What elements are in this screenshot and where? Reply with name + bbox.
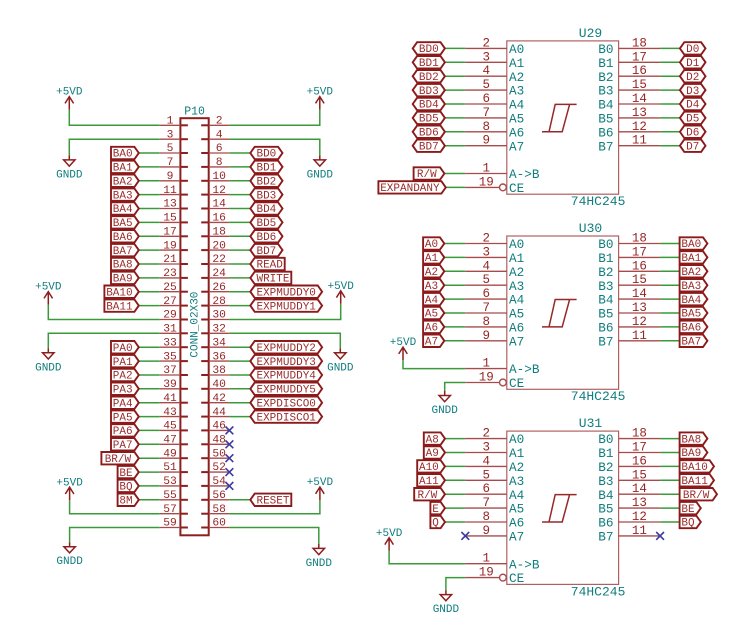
- svg-text:A4: A4: [509, 293, 524, 308]
- no-connect pin 50: [226, 454, 234, 462]
- wire pin 47 to label PA7: [139, 443, 160, 445]
- svg-text:19: 19: [479, 175, 494, 189]
- wire pin 55 to label 8M: [139, 499, 160, 501]
- net label BA7 (at U30): [680, 335, 708, 349]
- svg-text:5: 5: [482, 78, 490, 92]
- wire pin 39 to label PA3: [139, 388, 160, 390]
- P10 pin 29: [160, 310, 188, 322]
- svg-text:58: 58: [212, 504, 226, 516]
- net label 8M: [118, 494, 139, 508]
- P10 pin 53: [160, 476, 188, 488]
- svg-text:BA11: BA11: [106, 301, 133, 313]
- U29 pin 2 A0: [465, 36, 524, 57]
- wire pin 31 to GNDD: [48, 333, 159, 348]
- net label BA1 (at U30): [680, 251, 708, 265]
- wire pin 24 to label WRITE: [229, 277, 250, 279]
- +5VD power symbol (mid right): [327, 281, 354, 304]
- no-connect pin 52: [226, 468, 234, 476]
- U29 pin 14 B4: [598, 92, 660, 113]
- svg-text:49: 49: [163, 448, 177, 460]
- P10 pin 6: [201, 143, 229, 155]
- P10 pin 20: [201, 240, 229, 252]
- wire A3 to U30 A3: [444, 284, 465, 286]
- svg-text:PA0: PA0: [113, 343, 133, 355]
- net label BA11: [104, 299, 138, 313]
- svg-text:D1: D1: [686, 58, 700, 70]
- net label A9 (at U31): [424, 446, 445, 460]
- svg-text:U30: U30: [579, 221, 602, 236]
- svg-text:BA9: BA9: [113, 274, 133, 286]
- svg-text:12: 12: [632, 315, 647, 329]
- net label D0: [680, 42, 706, 56]
- svg-text:D0: D0: [686, 44, 699, 56]
- svg-text:+5VD: +5VD: [307, 87, 334, 99]
- P10 pin 55: [160, 490, 188, 502]
- svg-text:9: 9: [167, 171, 174, 183]
- U29 pin 1 A->B: [465, 162, 540, 183]
- svg-text:15: 15: [632, 78, 647, 92]
- svg-text:BA0: BA0: [113, 149, 133, 161]
- svg-text:1: 1: [482, 357, 490, 371]
- svg-text:18: 18: [632, 427, 647, 441]
- svg-text:BD1: BD1: [419, 58, 439, 70]
- svg-text:BA5: BA5: [113, 218, 133, 230]
- U30 pin 5 A3: [465, 273, 524, 294]
- wire U29 B1 to D1: [660, 61, 680, 63]
- svg-text:D7: D7: [686, 141, 699, 153]
- wire R/W to U31 A4: [445, 493, 465, 495]
- svg-text:8: 8: [482, 510, 490, 524]
- net label BE (at U31): [680, 502, 701, 516]
- svg-text:+5VD: +5VD: [390, 337, 417, 349]
- svg-text:17: 17: [632, 50, 647, 64]
- wire BD6 to U29 A6: [445, 131, 465, 133]
- wire pin 6 to label BD0: [229, 152, 250, 154]
- +5VD power symbol (top left): [56, 87, 83, 110]
- P10 pin 4: [201, 129, 229, 141]
- net label PA4: [111, 397, 139, 411]
- svg-text:33: 33: [163, 337, 177, 349]
- P10 pin 36: [201, 351, 229, 363]
- wire pin 26 to label EXPMUDDY0: [229, 291, 250, 293]
- wire pin 32 to GNDD: [229, 333, 340, 348]
- svg-text:11: 11: [632, 329, 647, 343]
- svg-text:D3: D3: [686, 86, 699, 98]
- net label A8 (at U31): [424, 432, 445, 446]
- wire A5 to U30 A5: [444, 312, 465, 314]
- svg-text:55: 55: [163, 490, 177, 502]
- svg-text:BQ: BQ: [681, 518, 695, 530]
- U29 pin 5 A3: [465, 78, 524, 99]
- net label D1: [680, 56, 706, 70]
- svg-text:4: 4: [482, 64, 490, 78]
- wire A4 to U30 A4: [444, 298, 465, 300]
- svg-text:D5: D5: [686, 114, 699, 126]
- svg-text:EXPDISCO1: EXPDISCO1: [256, 412, 316, 424]
- svg-text:4: 4: [482, 259, 490, 273]
- U31 pin 2 A0: [465, 427, 524, 448]
- U30 pin 3 A1: [465, 245, 524, 266]
- svg-text:19: 19: [479, 566, 494, 580]
- net label PA5: [111, 410, 139, 424]
- svg-text:74HC245: 74HC245: [571, 194, 626, 209]
- svg-text:12: 12: [632, 510, 647, 524]
- net label PA7: [111, 438, 139, 452]
- svg-text:A0: A0: [509, 237, 524, 252]
- net label A7: [423, 335, 444, 349]
- wire U29 B7 to D7: [660, 145, 680, 147]
- no-connect pin 54: [226, 482, 234, 490]
- +5VD power symbol (U30): [390, 337, 417, 360]
- wire A2 to U30 A2: [444, 270, 465, 272]
- U30 pin 6 A4: [465, 287, 524, 308]
- svg-text:9: 9: [482, 524, 490, 538]
- wire U31 B5 to BE: [660, 507, 680, 509]
- svg-text:GNDD: GNDD: [307, 169, 334, 181]
- svg-text:32: 32: [212, 324, 226, 336]
- svg-text:17: 17: [163, 227, 177, 239]
- U31 pin 3 A1: [465, 441, 524, 462]
- svg-text:CONN_02X30: CONN_02X30: [190, 292, 202, 358]
- svg-text:7: 7: [482, 106, 490, 120]
- P10 pin 7: [160, 157, 188, 169]
- ground GNDD (U31): [433, 590, 460, 616]
- svg-text:B7: B7: [598, 334, 613, 349]
- svg-text:+5VD: +5VD: [35, 282, 62, 294]
- wire pin 36 to label EXPMUDDY3: [229, 360, 250, 362]
- svg-text:10: 10: [212, 171, 226, 183]
- wire U30 B3 to BA3: [660, 284, 680, 286]
- U31 pin 6 A4: [465, 482, 524, 503]
- svg-text:12: 12: [632, 120, 647, 134]
- svg-text:D4: D4: [686, 100, 700, 112]
- U31 pin 15 B3: [598, 468, 660, 489]
- net label BA2 (at U30): [680, 265, 708, 279]
- svg-text:BA7: BA7: [113, 246, 133, 258]
- net label PA1: [111, 355, 139, 369]
- svg-text:3: 3: [167, 129, 174, 141]
- wire pin 56 to label RESET: [229, 499, 250, 501]
- net label BD2: [250, 175, 282, 189]
- ground GNDD (bottom right): [306, 544, 333, 570]
- net label EXPMUDDY2: [250, 341, 322, 355]
- net label BD3 (at U29): [413, 84, 445, 98]
- net label BA6: [111, 230, 139, 244]
- svg-text:44: 44: [212, 407, 226, 419]
- svg-text:13: 13: [632, 301, 647, 315]
- svg-text:RESET: RESET: [256, 496, 289, 508]
- wire U31 B0 to BA8: [660, 438, 680, 440]
- net label BA4 (at U30): [680, 293, 708, 307]
- svg-text:A3: A3: [509, 474, 524, 489]
- P10 pin 23: [160, 268, 188, 280]
- P10 pin 41: [160, 393, 188, 405]
- P10 pin 3: [160, 129, 188, 141]
- P10 pin 10: [201, 171, 229, 183]
- wire A0 to U30 A0: [444, 243, 465, 245]
- svg-text:54: 54: [212, 476, 226, 488]
- wire pin 23 to label BA9: [139, 277, 160, 279]
- svg-text:11: 11: [163, 185, 177, 197]
- svg-text:A2: A2: [425, 267, 438, 279]
- svg-text:7: 7: [482, 496, 490, 510]
- svg-text:A->B: A->B: [509, 557, 540, 572]
- U31 pin 16 B2: [598, 454, 660, 475]
- svg-text:+5VD: +5VD: [327, 281, 354, 293]
- ground GNDD (U30): [431, 391, 458, 417]
- svg-text:BA10: BA10: [106, 287, 132, 299]
- net label BD6 (at U29): [413, 126, 445, 140]
- net label EXPMUDDY4: [250, 369, 322, 383]
- svg-text:PA7: PA7: [113, 440, 133, 452]
- net label BA8 (at U31): [680, 432, 708, 446]
- svg-text:+5VD: +5VD: [56, 477, 83, 489]
- net label EXPDISCO1: [250, 410, 322, 424]
- net label PA6: [111, 424, 139, 438]
- svg-text:EXPMUDDY0: EXPMUDDY0: [256, 287, 315, 299]
- svg-text:40: 40: [212, 379, 226, 391]
- net label D3: [680, 84, 706, 98]
- svg-text:A3: A3: [509, 279, 524, 294]
- svg-text:B6: B6: [598, 516, 613, 531]
- P10 pin 58: [201, 504, 229, 516]
- svg-text:GNDD: GNDD: [327, 362, 354, 374]
- net label R/W (at U31): [414, 488, 445, 502]
- svg-text:BR/W: BR/W: [105, 454, 132, 466]
- wire E to U31 A5: [445, 507, 465, 509]
- svg-text:D6: D6: [686, 128, 699, 140]
- P10 pin 31: [160, 324, 188, 336]
- wire EXPANDANY to U29 pin 19: [446, 186, 466, 188]
- net label BD1: [250, 161, 282, 175]
- P10 pin 49: [160, 448, 188, 460]
- net label BD5: [250, 216, 282, 230]
- net label D6: [680, 126, 706, 140]
- svg-text:5: 5: [482, 468, 490, 482]
- svg-text:EXPMUDDY5: EXPMUDDY5: [256, 385, 315, 397]
- svg-text:B7: B7: [598, 139, 613, 154]
- svg-text:BD0: BD0: [256, 149, 276, 161]
- wire pin 15 to label BA5: [139, 221, 160, 223]
- wire pin 30 to +5VD: [229, 304, 340, 320]
- svg-text:BA6: BA6: [681, 323, 701, 335]
- svg-text:48: 48: [212, 435, 226, 447]
- svg-text:BA0: BA0: [681, 239, 701, 251]
- net label D4: [680, 98, 706, 112]
- P10 pin 19: [160, 240, 188, 252]
- svg-text:BD4: BD4: [419, 100, 439, 112]
- P10 pin 9: [160, 171, 188, 183]
- svg-text:R/W: R/W: [417, 169, 437, 181]
- wire U31 B4 to BR/W: [660, 493, 680, 495]
- svg-text:23: 23: [163, 268, 177, 280]
- svg-text:74HC245: 74HC245: [571, 584, 626, 599]
- net label BD7 (at U29): [413, 140, 445, 154]
- net label READ: [250, 258, 284, 272]
- U31 pin 17 B1: [598, 441, 660, 462]
- net label BD3: [250, 188, 282, 202]
- svg-text:BA1: BA1: [681, 253, 701, 265]
- wire U30 B4 to BA4: [660, 298, 680, 300]
- svg-text:19: 19: [163, 240, 177, 252]
- svg-text:BA2: BA2: [681, 267, 701, 279]
- wire pin 45 to label PA6: [139, 429, 160, 431]
- net label BD0 (at U29): [413, 42, 445, 56]
- P10 pin 12: [201, 185, 229, 197]
- net label WRITE: [250, 272, 291, 286]
- U29 pin 11 B7: [598, 134, 660, 155]
- svg-text:A->B: A->B: [509, 362, 540, 377]
- P10 pin 28: [201, 296, 229, 308]
- wire pin 13 to label BA4: [139, 208, 160, 210]
- svg-text:BD5: BD5: [419, 114, 439, 126]
- svg-text:47: 47: [163, 435, 177, 447]
- +5VD power symbol (top right): [307, 87, 334, 110]
- ground GNDD (top left): [56, 155, 83, 181]
- svg-text:CE: CE: [509, 376, 524, 391]
- U30 pin 15 B3: [598, 273, 660, 294]
- net label PA2: [111, 369, 139, 383]
- U30 pin 11 B7: [598, 329, 660, 350]
- net label BA10: [104, 286, 138, 300]
- svg-text:BD2: BD2: [256, 177, 276, 189]
- wire pin 41 to label PA4: [139, 402, 160, 404]
- wire pin 25 to label BA10: [139, 291, 160, 293]
- wire A7 to U30 A7: [444, 340, 465, 342]
- wire A1 to U30 A1: [444, 256, 465, 258]
- net label A11 (at U31): [417, 474, 445, 488]
- P10 pin 34: [201, 337, 229, 349]
- svg-text:E: E: [432, 504, 439, 516]
- svg-text:13: 13: [632, 496, 647, 510]
- P10 pin 47: [160, 435, 188, 447]
- svg-text:8: 8: [216, 157, 223, 169]
- svg-text:B2: B2: [598, 70, 613, 85]
- U29 pin 6 A4: [465, 92, 524, 113]
- svg-text:B1: B1: [598, 251, 613, 266]
- svg-text:BA8: BA8: [681, 434, 701, 446]
- svg-text:CE: CE: [509, 181, 524, 196]
- svg-text:20: 20: [212, 240, 226, 252]
- svg-text:A3: A3: [509, 84, 524, 99]
- svg-text:GNDD: GNDD: [35, 362, 62, 374]
- net label RESET: [250, 494, 291, 508]
- wire Q to U31 A6: [445, 521, 465, 523]
- svg-text:A4: A4: [509, 488, 524, 503]
- svg-text:BA9: BA9: [681, 448, 701, 460]
- net label D2: [680, 70, 706, 84]
- svg-text:16: 16: [632, 64, 647, 78]
- wire pin 18 to label BD6: [229, 235, 250, 237]
- svg-text:BA2: BA2: [113, 177, 133, 189]
- net label BA1: [111, 161, 139, 175]
- wire pin 22 to label READ: [229, 263, 250, 265]
- svg-text:A2: A2: [509, 70, 524, 85]
- svg-text:BA6: BA6: [113, 232, 133, 244]
- wire A8 to U31 A0: [445, 438, 465, 440]
- P10 pin 26: [201, 282, 229, 294]
- wire U29 B6 to D6: [660, 131, 680, 133]
- ground GNDD (mid left): [35, 348, 62, 374]
- wire A11 to U31 A3: [445, 479, 465, 481]
- svg-text:B4: B4: [598, 488, 613, 503]
- svg-text:2: 2: [216, 116, 223, 128]
- svg-text:B4: B4: [598, 98, 613, 113]
- svg-text:56: 56: [212, 490, 226, 502]
- svg-text:2: 2: [482, 427, 490, 441]
- svg-text:BA11: BA11: [681, 476, 708, 488]
- svg-text:4: 4: [216, 129, 223, 141]
- svg-text:P10: P10: [184, 105, 205, 118]
- net label R/W (at U29): [414, 167, 445, 181]
- svg-text:A0: A0: [509, 432, 524, 447]
- svg-text:BE: BE: [119, 468, 133, 480]
- net label A2: [423, 265, 444, 279]
- svg-text:B5: B5: [598, 112, 613, 127]
- svg-text:14: 14: [632, 92, 647, 106]
- wire pin 3 to GNDD: [69, 139, 159, 155]
- svg-text:16: 16: [212, 213, 226, 225]
- svg-text:27: 27: [163, 296, 177, 308]
- wire pin 40 to label EXPMUDDY5: [229, 388, 250, 390]
- svg-text:B3: B3: [598, 84, 613, 99]
- svg-text:16: 16: [632, 259, 647, 273]
- svg-text:38: 38: [212, 365, 226, 377]
- net label BA3 (at U30): [680, 279, 708, 293]
- svg-text:5: 5: [167, 143, 174, 155]
- net label BD5 (at U29): [413, 112, 445, 126]
- net label PA3: [111, 383, 139, 397]
- svg-text:A7: A7: [425, 337, 438, 349]
- svg-text:BA3: BA3: [113, 190, 133, 202]
- U30 pin 14 B4: [598, 287, 660, 308]
- wire BD4 to U29 A4: [445, 103, 465, 105]
- net label BR/W (at U31): [680, 488, 717, 502]
- svg-text:59: 59: [163, 518, 177, 530]
- net label BD7: [250, 244, 282, 258]
- net label EXPMUDDY0: [250, 286, 322, 300]
- U29 pin 17 B1: [598, 50, 660, 71]
- svg-text:B0: B0: [598, 237, 613, 252]
- U29 pin 7 A5: [465, 106, 524, 127]
- wire pin 51 to label BE: [139, 471, 160, 473]
- P10 pin 17: [160, 227, 188, 239]
- svg-text:BR/W: BR/W: [683, 490, 710, 502]
- P10 pin 56: [201, 490, 229, 502]
- wire pin 9 to label BA2: [139, 180, 160, 182]
- svg-text:A9: A9: [426, 448, 439, 460]
- svg-text:A2: A2: [509, 265, 524, 280]
- no-connect pin 48: [226, 440, 234, 448]
- svg-text:GNDD: GNDD: [431, 405, 458, 417]
- ground GNDD (bottom left): [56, 542, 83, 568]
- svg-text:PA1: PA1: [113, 357, 133, 369]
- svg-text:EXPANDANY: EXPANDANY: [380, 183, 440, 195]
- net label BA2: [111, 175, 139, 189]
- svg-text:PA6: PA6: [113, 426, 133, 438]
- P10 pin 2: [201, 116, 229, 128]
- svg-text:EXPMUDDY3: EXPMUDDY3: [256, 357, 315, 369]
- svg-text:BD3: BD3: [256, 190, 276, 202]
- svg-text:Q: Q: [432, 518, 439, 530]
- svg-text:B5: B5: [598, 307, 613, 322]
- P10 pin 50: [201, 448, 229, 460]
- svg-text:GNDD: GNDD: [56, 169, 83, 181]
- P10 pin 35: [160, 351, 188, 363]
- net label BA4: [111, 202, 139, 216]
- svg-text:A->B: A->B: [509, 167, 540, 182]
- P10 pin 54: [201, 476, 229, 488]
